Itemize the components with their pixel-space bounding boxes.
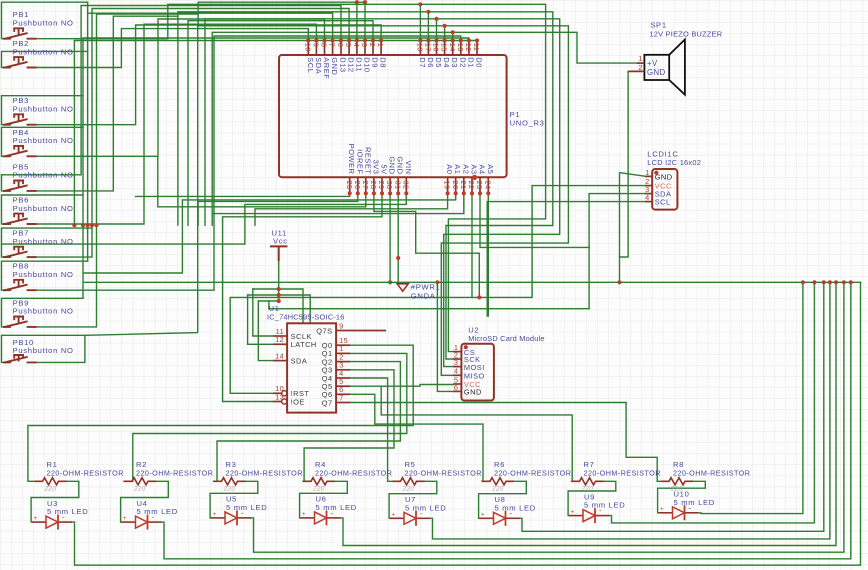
wire U3 cathode to GNDA xyxy=(72,282,861,565)
wire R7 to U9 xyxy=(568,481,616,515)
junction Vcc rail c xyxy=(277,299,281,303)
svg-text:5 mm LED: 5 mm LED xyxy=(495,503,536,512)
pin D5 (16) of P1 xyxy=(432,38,443,67)
pin A2 (21) of P1 xyxy=(459,164,470,195)
svg-text:5 mm LED: 5 mm LED xyxy=(226,503,267,512)
wire U6 cathode to GNDA xyxy=(341,282,837,545)
pin D9 (2) of P1 xyxy=(368,38,379,67)
svg-text:220: 220 xyxy=(44,485,57,492)
svg-text:3V3: 3V3 xyxy=(371,160,380,175)
svg-text:5: 5 xyxy=(344,43,353,48)
svg-text:13: 13 xyxy=(275,392,284,401)
wire Q6 to R6 bus xyxy=(350,394,483,481)
wire LCD GND diagonal xyxy=(620,173,645,177)
svg-text:5V: 5V xyxy=(380,164,389,174)
wire PB7 to D12 pin 5 xyxy=(35,9,349,258)
module U2 MicroSD body xyxy=(461,344,494,401)
wire A2 staircase xyxy=(212,193,464,213)
wire R3 to U5 xyxy=(210,481,258,518)
pushbutton PB10 xyxy=(3,338,74,363)
svg-text:220-OHM-RESISTOR: 220-OHM-RESISTOR xyxy=(315,469,392,478)
pushbutton PB4 xyxy=(3,128,74,157)
svg-text:25: 25 xyxy=(345,181,354,190)
junction xyxy=(90,223,94,227)
pin GND (7) of P1 xyxy=(328,38,339,75)
wire D10 drop from top bus xyxy=(364,2,366,40)
wire U9 cathode to GNDA xyxy=(609,282,814,523)
wire GND31 down to GNDA arrow xyxy=(397,193,399,282)
svg-text:MOSI: MOSI xyxy=(464,363,485,372)
svg-text:2: 2 xyxy=(638,63,642,72)
svg-text:+: + xyxy=(392,511,396,518)
svg-text:MISO: MISO xyxy=(464,372,485,381)
svg-text:22: 22 xyxy=(467,181,476,190)
svg-text:6: 6 xyxy=(454,383,459,392)
wire trunk x83 to D1 pin 12 xyxy=(83,38,469,225)
svg-text:A3: A3 xyxy=(470,164,479,174)
wire PB6 to SDA pin 9 xyxy=(35,24,316,224)
pin SCLK (11) of U1 xyxy=(273,327,312,341)
wire 5V to U1 !OE xyxy=(223,193,382,401)
wire U7 cathode to GNDA xyxy=(430,282,830,539)
svg-text:A0: A0 xyxy=(445,164,454,174)
pin D0 (11) of P1 xyxy=(472,38,483,67)
pushbutton PB9 xyxy=(3,298,74,327)
pin SDA (3) of LCD1C xyxy=(645,185,671,198)
svg-text:GND: GND xyxy=(464,388,482,397)
buzzer SP1 body xyxy=(644,55,669,80)
led U9 5mm xyxy=(569,492,625,523)
pin D3 (14) of P1 xyxy=(448,38,459,67)
svg-text:220-OHM-RESISTOR: 220-OHM-RESISTOR xyxy=(494,469,571,478)
svg-text:23: 23 xyxy=(475,181,484,190)
wire R1 to U3 xyxy=(31,481,79,522)
svg-text:14: 14 xyxy=(275,351,284,360)
svg-text:Q7: Q7 xyxy=(322,398,333,407)
svg-text:LCD I2C 16x02: LCD I2C 16x02 xyxy=(647,158,701,167)
svg-text:A4: A4 xyxy=(478,164,487,174)
wire PB9 trunk to top bus xyxy=(35,14,198,327)
svg-text:220: 220 xyxy=(491,485,504,492)
wire link 301 to 308 xyxy=(268,301,270,309)
svg-text:IOREF: IOREF xyxy=(355,149,364,174)
label LCD I2C 16x02 xyxy=(647,158,701,167)
wire A1 staircase far left xyxy=(84,193,455,273)
junction 3V3 on VCC line xyxy=(477,295,481,299)
pin RESET (27) of P1 xyxy=(361,147,372,196)
svg-text:12V PIEZO BUZZER: 12V PIEZO BUZZER xyxy=(649,30,722,39)
svg-text:13: 13 xyxy=(456,43,465,52)
svg-text:5 mm LED: 5 mm LED xyxy=(405,503,446,512)
wire PB8 to D2 pin 13 xyxy=(35,36,461,290)
svg-text:Pushbutton NO: Pushbutton NO xyxy=(13,270,74,279)
power U11 Vcc symbol xyxy=(270,246,287,261)
resistor R4 220-OHM xyxy=(303,460,392,493)
wire PB6 left hook xyxy=(2,195,84,224)
pin D7 (18) of P1 xyxy=(416,38,427,67)
wire Q5 to U2 VCC xyxy=(350,385,453,387)
pin AREF (8) of P1 xyxy=(320,38,331,79)
junction GNDA rail at x850.8 xyxy=(849,280,853,284)
svg-text:D8: D8 xyxy=(379,57,388,68)
svg-text:D4: D4 xyxy=(442,57,451,68)
wire PB2 to SCL pin 10 xyxy=(35,29,308,68)
pin IOREF (26) of P1 xyxy=(353,149,364,195)
junction GNDA rail at x802.9 xyxy=(801,280,805,284)
junction xyxy=(72,223,76,227)
svg-text:SCL: SCL xyxy=(655,198,671,207)
wire R5 to U7 xyxy=(389,481,437,518)
pin GND (31) of P1 xyxy=(393,156,404,195)
svg-text:-: - xyxy=(331,508,334,517)
wire trunk x87.6 down xyxy=(87,13,89,261)
svg-text:GNDA: GNDA xyxy=(411,292,436,301)
wire D11 drop from top bus xyxy=(356,2,358,40)
pin Q5 (5) of U1 xyxy=(322,377,350,391)
wire trunk x74.4 to D0 pin 11 xyxy=(74,41,477,226)
pin D11 (4) of P1 xyxy=(352,38,363,72)
junction top bus at D11 xyxy=(355,0,359,4)
wire U4 cathode to GNDA xyxy=(162,282,851,559)
wire U2 GND to GNDA rail xyxy=(437,282,453,391)
svg-text:220: 220 xyxy=(581,485,594,492)
svg-text:1: 1 xyxy=(376,43,385,48)
svg-text:A2: A2 xyxy=(461,164,470,174)
wire A5 to LCD SCL xyxy=(487,193,645,316)
svg-text:15: 15 xyxy=(440,43,449,52)
svg-text:7: 7 xyxy=(328,43,337,48)
pin SDA (9) of P1 xyxy=(312,38,323,74)
junction GNDA rail at x843.9 xyxy=(842,280,846,284)
label Vcc xyxy=(273,236,288,245)
resistor R5 220-OHM xyxy=(393,460,482,493)
junction GNDA rail at x814.4 xyxy=(812,280,816,284)
wire R4 to U6 xyxy=(300,481,348,518)
svg-text:GND: GND xyxy=(655,172,673,181)
wire rail y289 line xyxy=(253,289,303,323)
pin Q4 (4) of U1 xyxy=(322,369,350,383)
label U11 xyxy=(272,228,287,237)
svg-text:6: 6 xyxy=(336,43,345,48)
wire PB3 left hook xyxy=(2,96,84,125)
label U1 xyxy=(269,304,280,313)
svg-text:-: - xyxy=(420,509,423,518)
resistor R7 220-OHM xyxy=(572,460,661,493)
resistor R8 220-OHM xyxy=(661,460,750,493)
wire PB5 strike to D13 pin 6 xyxy=(2,6,342,175)
wire LATCH drop xyxy=(248,295,273,344)
label GNDA xyxy=(411,292,436,301)
wire R8 to U10 xyxy=(658,481,706,513)
wire Q4 to R5 drop xyxy=(350,378,392,481)
svg-text:D2: D2 xyxy=(458,57,467,68)
svg-text:220-OHM-RESISTOR: 220-OHM-RESISTOR xyxy=(47,469,124,478)
svg-text:+: + xyxy=(481,511,485,518)
wire VIN staircase xyxy=(2,193,407,244)
wire A4 to LCD SDA xyxy=(480,193,645,247)
svg-text:GND: GND xyxy=(330,57,339,75)
svg-text:+: + xyxy=(302,511,306,518)
wire Q5b to R7 bus xyxy=(381,386,572,481)
svg-text:4: 4 xyxy=(454,367,459,376)
svg-text:30: 30 xyxy=(385,181,394,190)
pin D6 (17) of P1 xyxy=(424,38,435,67)
pin SDA (14) of U1 xyxy=(273,351,307,365)
svg-text:POWER: POWER xyxy=(347,144,356,175)
junction dot U2 xyxy=(464,345,468,349)
svg-text:+: + xyxy=(123,515,127,522)
label U2 xyxy=(468,326,479,335)
wire trunk x212 to D3 pin 14 xyxy=(212,32,453,225)
svg-text:+: + xyxy=(213,511,217,518)
svg-text:A5: A5 xyxy=(486,164,495,174)
svg-text:+: + xyxy=(571,509,575,516)
label SP1 xyxy=(650,21,666,30)
svg-text:5 mm LED: 5 mm LED xyxy=(316,503,357,512)
svg-text:R8: R8 xyxy=(673,460,684,469)
wire SDA drop xyxy=(258,301,273,361)
svg-text:-: - xyxy=(689,503,692,512)
junction GNDA rail at x823.8 xyxy=(822,280,826,284)
pin D4 (15) of P1 xyxy=(440,38,451,67)
wire trunk x188 to D9 pin 2 xyxy=(188,21,373,226)
svg-text:D6: D6 xyxy=(426,57,435,68)
label IC_74HC595-SOIC-16 xyxy=(267,313,345,322)
resistor R6 220-OHM xyxy=(482,460,571,493)
svg-text:220: 220 xyxy=(402,485,415,492)
svg-text:-: - xyxy=(152,513,155,522)
label LCDI1C xyxy=(647,150,678,159)
svg-text:9: 9 xyxy=(339,321,344,330)
wire A3 down to VCC line xyxy=(471,193,473,297)
junction xyxy=(94,223,98,227)
svg-text:R3: R3 xyxy=(226,460,237,469)
svg-text:SDA: SDA xyxy=(314,57,323,74)
wire trunk x83 down xyxy=(82,225,84,298)
svg-text:IC_74HC595-SOIC-16: IC_74HC595-SOIC-16 xyxy=(267,313,345,322)
pin MISO (4) of U2 xyxy=(453,367,485,381)
svg-text:UNO_R3: UNO_R3 xyxy=(510,119,545,128)
pin A1 (20) of P1 xyxy=(451,164,462,195)
led U5 5mm xyxy=(211,495,267,526)
wire PB4 to AREF pin 8 xyxy=(35,19,325,156)
svg-text:220-OHM-RESISTOR: 220-OHM-RESISTOR xyxy=(136,469,213,478)
wire U10 cathode to GNDA xyxy=(699,282,803,513)
svg-text:D7: D7 xyxy=(418,57,427,68)
svg-text:220-OHM-RESISTOR: 220-OHM-RESISTOR xyxy=(584,469,661,478)
wire Q7 to R8 route xyxy=(350,403,661,482)
pushbutton PB1 xyxy=(3,10,74,39)
led U10 5mm xyxy=(659,490,715,521)
pin D13 (6) of P1 xyxy=(336,38,347,72)
svg-text:Pushbutton NO: Pushbutton NO xyxy=(13,47,74,56)
wire Vcc stem down xyxy=(278,261,280,301)
svg-text:Pushbutton NO: Pushbutton NO xyxy=(13,19,74,28)
svg-text:11: 11 xyxy=(472,43,481,51)
wire RST to LCD VCC line xyxy=(230,186,645,394)
pin D8 (1) of P1 xyxy=(376,38,387,67)
svg-text:3: 3 xyxy=(454,358,459,367)
svg-text:Pushbutton NO: Pushbutton NO xyxy=(13,136,74,145)
svg-text:29: 29 xyxy=(377,181,386,190)
svg-text:-: - xyxy=(510,509,513,518)
wire D3 bus to buzzer +V xyxy=(453,32,637,63)
pushbutton PB2 xyxy=(3,39,74,68)
svg-text:18: 18 xyxy=(416,43,425,52)
svg-text:21: 21 xyxy=(459,181,468,190)
wire PB1 left hook xyxy=(2,2,88,39)
svg-text:31: 31 xyxy=(393,181,402,190)
svg-text:Q7S: Q7S xyxy=(316,326,332,335)
pin MOSI (3) of U2 xyxy=(453,358,485,372)
svg-text:20: 20 xyxy=(451,181,460,190)
pin Q7 (7) of U1 xyxy=(322,393,350,407)
junction Vcc rail b xyxy=(277,293,281,297)
svg-text:GND: GND xyxy=(388,156,397,174)
pin Q7S stub extension xyxy=(350,330,386,332)
svg-text:MicroSD Card Module: MicroSD Card Module xyxy=(468,334,545,343)
svg-text:SDA: SDA xyxy=(291,356,308,365)
junction xyxy=(81,223,85,227)
pin 2 GND of SP1 xyxy=(628,63,665,77)
wire PB2 left hook xyxy=(2,51,88,67)
svg-text:Pushbutton NO: Pushbutton NO xyxy=(13,346,74,355)
svg-text:D12: D12 xyxy=(347,57,356,72)
wire PB8 left hook xyxy=(2,261,88,290)
junction GNDA left of LCD drop xyxy=(617,280,621,284)
A3 stub junction dot xyxy=(472,175,477,180)
svg-text:-: - xyxy=(599,506,602,515)
pin !RST (10) of U1 xyxy=(273,384,309,398)
pin Q2 (2) of U1 xyxy=(322,352,350,366)
pin 5V (29) of P1 xyxy=(377,164,388,195)
module LCD1C body xyxy=(652,169,677,210)
pin A3 (22) of P1 xyxy=(467,164,478,195)
svg-text:28: 28 xyxy=(369,181,378,190)
pin 3V3 (28) of P1 xyxy=(369,160,380,196)
pin LATCH (12) of U1 xyxy=(273,335,317,349)
pin POWER (25) of P1 xyxy=(345,144,356,196)
svg-text:1: 1 xyxy=(638,54,642,63)
junction Vcc rail a xyxy=(277,287,281,291)
pin SCK (2) of U2 xyxy=(453,350,480,364)
svg-text:220-OHM-RESISTOR: 220-OHM-RESISTOR xyxy=(226,469,303,478)
svg-text:27: 27 xyxy=(361,181,370,190)
svg-text:16: 16 xyxy=(432,43,441,52)
svg-text:1: 1 xyxy=(645,168,650,177)
label 12V PIEZO BUZZER xyxy=(649,30,722,39)
svg-text:5 mm LED: 5 mm LED xyxy=(137,507,178,516)
wire PB10 left hook xyxy=(2,335,85,362)
wire RESET staircase left xyxy=(158,156,366,207)
wire trunk x177.9 to D6 pin 17 xyxy=(178,12,429,225)
svg-text:D9: D9 xyxy=(371,57,380,68)
svg-text:D1: D1 xyxy=(466,57,475,68)
svg-text:R4: R4 xyxy=(315,460,326,469)
svg-text:12: 12 xyxy=(464,43,473,52)
led U4 5mm xyxy=(122,499,178,530)
pushbutton PB8 xyxy=(3,262,74,291)
wire PB1 to D7 pin 18 xyxy=(35,4,420,40)
svg-text:7: 7 xyxy=(339,393,344,402)
pin GND (1) of LCD1C xyxy=(645,168,673,181)
svg-text:R7: R7 xyxy=(584,460,595,469)
label MicroSD Card Module xyxy=(468,334,545,343)
wire LCD GND down to GNDA xyxy=(619,173,622,283)
pin Q0 (15) of U1 xyxy=(322,336,350,350)
pushbutton PB3 xyxy=(3,96,74,125)
svg-text:5 mm LED: 5 mm LED xyxy=(674,498,715,507)
led U6 5mm xyxy=(301,495,357,526)
pin A4 (23) of P1 xyxy=(475,164,486,195)
led U7 5mm xyxy=(390,495,446,526)
wire R2 to U4 xyxy=(121,481,169,522)
wire PB4 left hook xyxy=(2,127,84,156)
pin Q1 (1) of U1 xyxy=(322,344,350,358)
wire D7 bus to U2 CS xyxy=(420,4,545,351)
pin GND (6) of U2 xyxy=(453,383,482,397)
svg-text:17: 17 xyxy=(424,43,433,52)
wire SCLK drop xyxy=(253,289,273,336)
wire Q2 to R3 bus xyxy=(214,362,401,482)
resistor R2 220-OHM xyxy=(124,460,213,493)
wire PB7 left hook xyxy=(2,228,93,257)
svg-text:D0: D0 xyxy=(475,57,484,68)
wire D5 bus to U2 MOSI xyxy=(437,19,560,367)
pushbutton PB6 xyxy=(3,196,74,225)
pin D10 (3) of P1 xyxy=(360,38,371,72)
svg-text:D11: D11 xyxy=(354,57,363,72)
wire SDA drop tail xyxy=(588,247,590,308)
pin VIN (32) of P1 xyxy=(401,160,412,195)
wire D4 bus to U2 MISO xyxy=(441,26,568,376)
svg-text:220-OHM-RESISTOR: 220-OHM-RESISTOR xyxy=(673,469,750,478)
buzzer SP1 horn xyxy=(669,40,685,95)
pushbutton PB5 xyxy=(3,162,74,191)
junction D6 bus xyxy=(426,10,430,14)
pin GND (30) of P1 xyxy=(385,156,396,195)
svg-text:RESET: RESET xyxy=(363,147,372,175)
svg-text:#PWR1: #PWR1 xyxy=(411,282,441,291)
svg-text:8: 8 xyxy=(320,43,329,48)
svg-text:Pushbutton NO: Pushbutton NO xyxy=(13,237,74,246)
svg-text:Pushbutton NO: Pushbutton NO xyxy=(13,307,74,316)
wire U8 cathode to GNDA xyxy=(520,282,824,531)
pin A5 (24) of P1 xyxy=(483,164,494,195)
pin VCC (2) of LCD1C xyxy=(645,177,672,190)
svg-text:D13: D13 xyxy=(339,57,348,72)
pin SCL (4) of LCD1C xyxy=(645,193,671,206)
pin Q6 (6) of U1 xyxy=(322,385,350,399)
junction xyxy=(86,223,90,227)
pin D12 (5) of P1 xyxy=(344,38,355,72)
wire rail y301 SDA xyxy=(258,300,278,302)
svg-text:AREF: AREF xyxy=(322,57,331,79)
svg-text:12: 12 xyxy=(275,335,284,344)
resistor R1 220-OHM xyxy=(35,460,124,493)
wire R6 to U8 xyxy=(479,481,527,518)
junction D5 bus xyxy=(434,17,438,21)
svg-text:Pushbutton NO: Pushbutton NO xyxy=(13,171,74,180)
wire PB3 to D8 pin 1 xyxy=(35,25,381,125)
wire 3V3 staircase xyxy=(374,193,479,297)
svg-text:9: 9 xyxy=(312,43,321,48)
pin A0 (19) of P1 xyxy=(443,164,454,195)
svg-text:GND: GND xyxy=(396,156,405,174)
svg-text:R6: R6 xyxy=(494,460,505,469)
wire rail y295 line xyxy=(248,295,311,323)
svg-text:-: - xyxy=(62,513,65,522)
